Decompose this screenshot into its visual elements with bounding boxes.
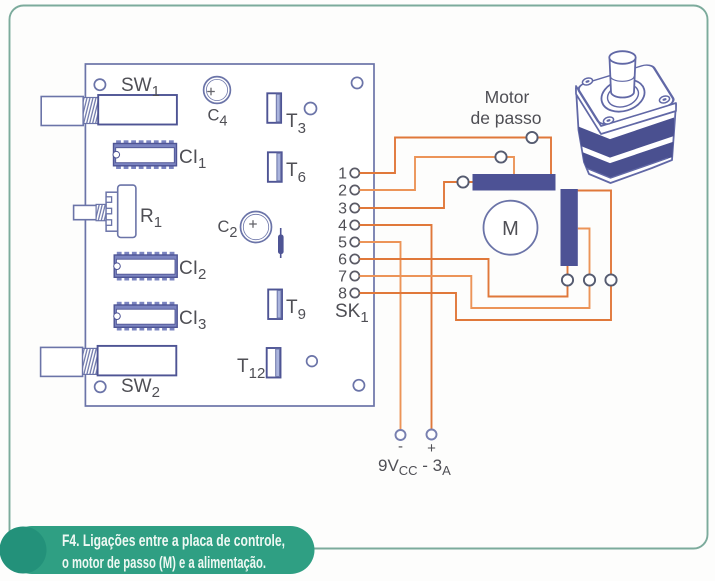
transistor T3 (267, 93, 281, 123)
pin 1 of SK1 (338, 166, 359, 183)
svg-text:6: 6 (338, 252, 347, 269)
transistor T6 (268, 152, 282, 182)
motor coil B (vertical winding) (561, 189, 578, 266)
caption dark disc (0, 527, 47, 574)
wire pin2 to coil A center tap (360, 157, 515, 190)
positive terminal (427, 430, 437, 440)
capacitor C4 (204, 77, 231, 104)
terminal coil A left (pin3) (457, 176, 468, 187)
svg-text:de passo: de passo (470, 108, 541, 128)
mounting hole top-right (352, 77, 363, 88)
terminal coil B tap (pin7) (584, 274, 595, 285)
switch SW2 (41, 346, 177, 377)
svg-text:9VCC - 3A: 9VCC - 3A (378, 456, 451, 478)
capacitor C2 (241, 212, 272, 243)
mounting hole bottom-left (95, 381, 106, 392)
terminal coil A tap (pin2) (495, 151, 506, 162)
motor symbol M (484, 201, 538, 255)
svg-text:F4. Ligações entre a placa de: F4. Ligações entre a placa de controle, (62, 531, 285, 550)
motor coil A (horizontal winding) (473, 174, 556, 191)
svg-text:8: 8 (338, 286, 347, 303)
small axial component right of C2 (278, 228, 284, 258)
svg-text:3: 3 (338, 201, 347, 218)
svg-text:Motor: Motor (485, 87, 530, 107)
IC CI2 (114, 252, 178, 281)
wire pin6 to coil B bottom terminal (360, 259, 568, 297)
pin 7 of SK1 (338, 269, 359, 286)
IC CI1 (113, 140, 177, 169)
pin 4 of SK1 (338, 218, 359, 235)
hole near T12 (307, 356, 318, 367)
svg-text:1: 1 (338, 166, 347, 183)
pin 8 of SK1 (338, 286, 359, 303)
pin 6 of SK1 (338, 252, 359, 269)
pin 2 of SK1 (338, 183, 359, 200)
svg-text:o motor de passo (M) e a alime: o motor de passo (M) e a alimentação. (62, 553, 266, 572)
wire pin5 to negative terminal (360, 242, 401, 431)
terminal coil A right (pin1) (526, 132, 537, 143)
control board outline (85, 64, 374, 406)
wire pin4 to positive terminal (360, 225, 432, 429)
terminal coil B top (pin8) (605, 274, 616, 285)
svg-text:7: 7 (338, 269, 347, 286)
svg-text:-: - (398, 438, 403, 455)
transistor T12 (267, 348, 281, 378)
svg-text:5: 5 (338, 235, 347, 252)
mounting hole top-left (94, 79, 105, 90)
negative terminal (396, 430, 406, 440)
svg-text:2: 2 (338, 183, 347, 200)
wire pin1 to coil A right end (360, 138, 552, 177)
wire coil B bottom stub (567, 266, 569, 275)
svg-text:4: 4 (338, 218, 347, 235)
caption pill box (8, 526, 315, 574)
svg-text:+: + (427, 440, 436, 457)
wire pin7 to coil B tap terminal (360, 276, 590, 308)
pin 5 of SK1 (338, 235, 359, 252)
hole near T3 (305, 103, 317, 115)
pin 3 of SK1 (338, 201, 359, 218)
mounting hole bottom-right (353, 380, 364, 391)
wire coil B tap to middle terminal (578, 229, 590, 275)
transistor T9 (268, 290, 282, 320)
switch SW1 (41, 95, 177, 126)
wire pin3 to coil A left end (360, 182, 475, 208)
wire coil B top to right terminal (572, 191, 611, 275)
terminal coil B bottom (pin6) (562, 274, 573, 285)
stepper motor illustration (574, 51, 676, 183)
IC CI3 (114, 302, 178, 331)
svg-text:M: M (502, 218, 519, 240)
potentiometer R1 (74, 185, 136, 237)
wire pin8 to coil B top terminal (360, 286, 612, 320)
